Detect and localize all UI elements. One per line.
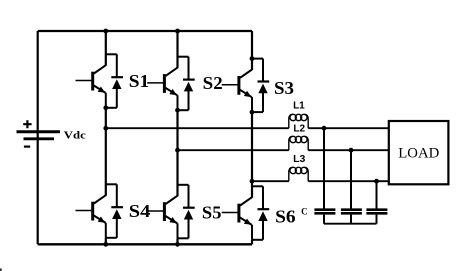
svg-text:C: C (301, 207, 308, 217)
node: phase A / C1 drop junction (322, 126, 327, 131)
wire: phase C line left (252, 180, 289, 182)
battery minus sign (24, 146, 30, 148)
wire: bottom rail (38, 243, 252, 245)
battery plus sign (23, 120, 31, 128)
scan artifact bottom-left corner (0, 268, 2, 271)
node: S2 emitter/diode junction (175, 108, 180, 113)
svg-text:LOAD: LOAD (398, 146, 439, 162)
node: top rail / leg2 junction (175, 29, 180, 34)
wire: leg3 upper (251, 31, 253, 70)
transistor+diode S5 (147, 185, 195, 239)
svg-text:S6: S6 (275, 206, 296, 226)
capacitor C3 (366, 210, 387, 214)
wire: phase A line right (308, 127, 389, 129)
wire: C1 drop (323, 128, 325, 208)
transistor+diode S4 (76, 184, 124, 238)
svg-text:S1: S1 (129, 71, 150, 91)
svg-text:S4: S4 (129, 201, 151, 221)
wire: C2 bottom lead (350, 215, 352, 224)
transistor+diode S2 (147, 57, 195, 111)
svg-text:L1: L1 (293, 101, 305, 112)
node: S3 emitter/diode junction (250, 110, 255, 115)
wire: leg3 bottom (251, 240, 253, 245)
wire: left DC bus vertical (37, 31, 39, 244)
wire: leg1 bottom (105, 238, 107, 245)
wire: capacitor common bus (324, 223, 377, 225)
svg-text:L2: L2 (293, 123, 305, 134)
wire: phase C line right (308, 180, 389, 182)
node: phase C / C3 drop junction (374, 179, 379, 184)
transistor+diode S6 (222, 186, 270, 240)
wire: C3 drop (376, 181, 378, 208)
battery Vdc positive plate (17, 130, 61, 133)
transistor+diode S1 (76, 54, 124, 108)
capacitor C1 (314, 210, 335, 214)
node: S1 emitter/diode junction (103, 105, 108, 110)
capacitor C2 (341, 210, 362, 214)
node: S3 collector/diode junction (250, 56, 255, 61)
wire: leg1 upper (105, 31, 107, 66)
svg-text:S2: S2 (203, 73, 223, 93)
wire: leg3 lower (tap to S6) (251, 181, 253, 198)
inductor L1 (289, 114, 308, 128)
wire: C3 bottom lead (376, 215, 378, 224)
node: bottom rail / leg2 junction (175, 242, 180, 247)
svg-text:S3: S3 (274, 78, 294, 98)
wire: leg2 mid (to phase B tap) (176, 110, 178, 150)
top rail (38, 30, 252, 32)
wire: phase B line left (178, 149, 289, 151)
wire: C2 drop (350, 150, 352, 208)
wire: leg3 mid (to phase C tap) (251, 112, 253, 181)
node: phase C tap on leg3 (250, 179, 255, 184)
wire: leg2 lower (tap to S5) (176, 150, 178, 196)
wire: leg2 upper (176, 31, 178, 68)
wire: leg2 bottom (176, 238, 178, 244)
node: phase B tap on leg2 (175, 148, 180, 153)
svg-text:S5: S5 (202, 203, 222, 223)
transistor+diode S3 (222, 59, 270, 113)
node: top rail / leg1 junction (103, 29, 108, 34)
wire: phase A line left (106, 127, 289, 129)
svg-text:L3: L3 (293, 153, 305, 165)
svg-text:Vdc: Vdc (64, 130, 86, 142)
battery Vdc negative plate (24, 137, 55, 140)
wire: C1 bottom lead (323, 215, 325, 224)
LOAD box (389, 121, 449, 184)
inductor L3 (289, 167, 308, 181)
node: bottom rail / leg1 junction (103, 242, 108, 247)
node: phase B / C2 drop junction (349, 148, 354, 153)
node: phase A tap on leg1 (103, 126, 108, 131)
inductor L2 (289, 136, 308, 150)
wire: leg1 mid (to phase A tap) (105, 108, 107, 128)
wire: leg1 lower (tap to S4) (105, 128, 107, 196)
wire: phase B line right (308, 149, 389, 151)
